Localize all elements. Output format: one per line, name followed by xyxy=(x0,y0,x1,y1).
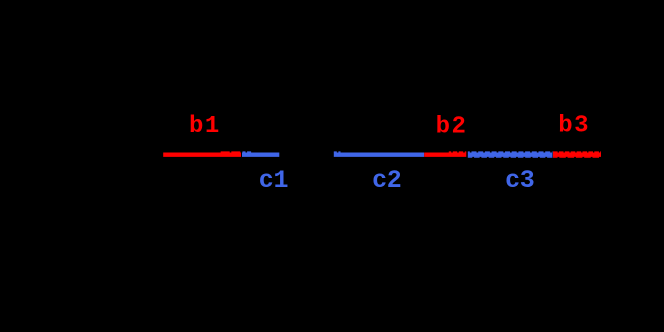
wire b1 dotted overlay top xyxy=(221,151,241,153)
svg-text:c2: c2 xyxy=(372,166,401,195)
svg-text:c1: c1 xyxy=(259,166,288,195)
svg-text:b3: b3 xyxy=(558,112,590,139)
wire c2 dotted overlay top xyxy=(334,151,341,153)
wire b2 dotted overlay top xyxy=(449,151,467,153)
svg-text:b2: b2 xyxy=(436,113,468,140)
wire segment c1 xyxy=(242,152,279,156)
wire c1 dotted overlay top xyxy=(243,151,253,153)
wire b3 dotted overlay top xyxy=(553,151,601,153)
wire segment c3 xyxy=(468,152,553,156)
wire b3 dotted overlay bottom xyxy=(553,156,600,158)
wire c3 dotted overlay bottom xyxy=(468,156,553,158)
wire segment b3 xyxy=(553,152,601,156)
wire segment c2 xyxy=(334,152,424,156)
svg-text:b1: b1 xyxy=(189,113,221,140)
svg-text:c3: c3 xyxy=(505,166,534,195)
wire segment b2 xyxy=(424,152,466,156)
wire c3 dotted overlay top xyxy=(468,151,553,153)
wire segment b1 xyxy=(163,152,241,156)
